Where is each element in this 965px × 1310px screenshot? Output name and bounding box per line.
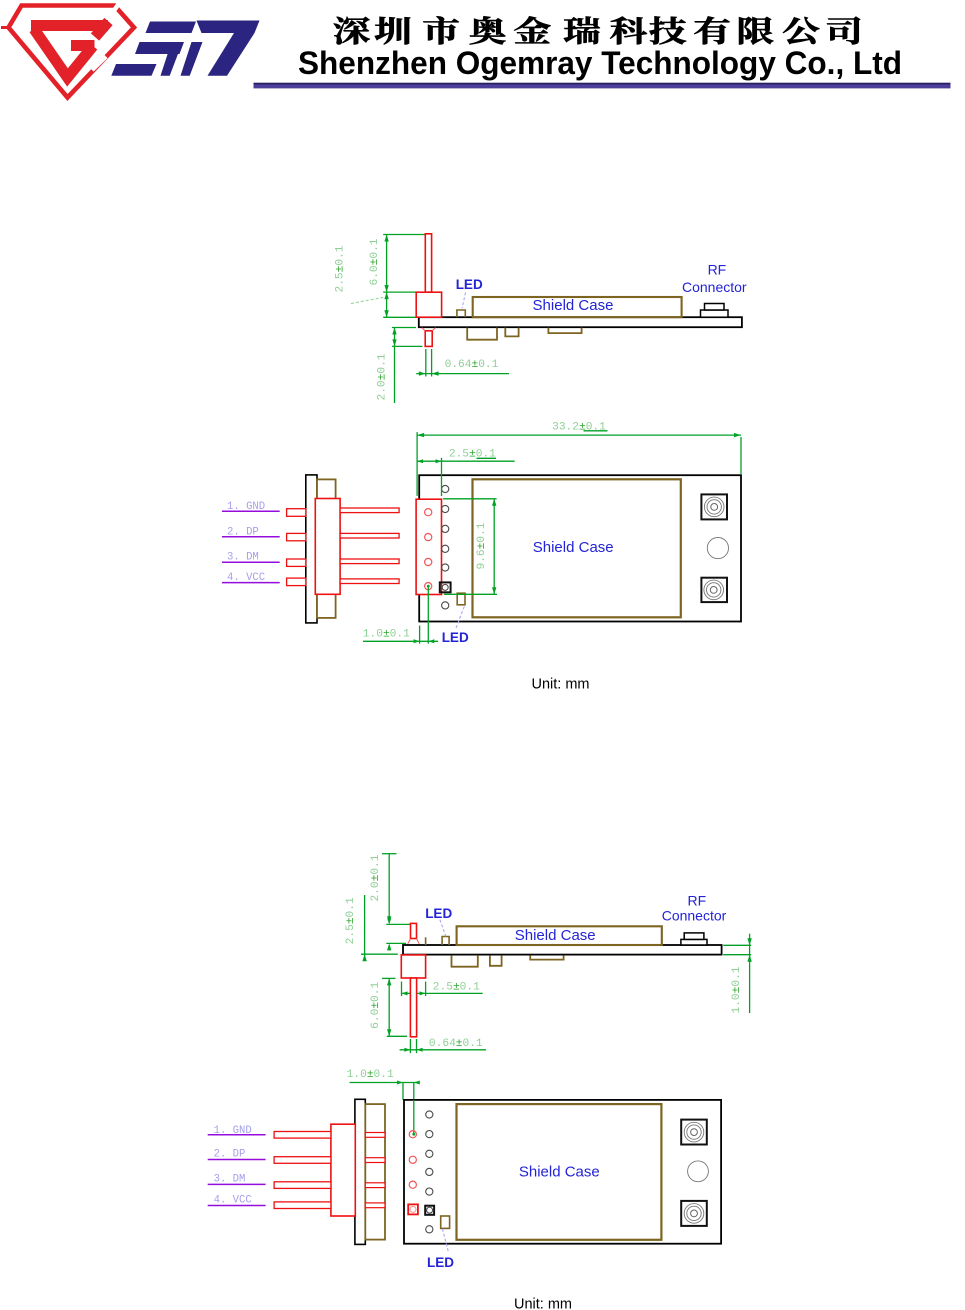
svg-text:Unit: mm: Unit: mm — [514, 1297, 572, 1310]
svg-text:2.0±0.1: 2.0±0.1 — [370, 854, 382, 901]
svg-text:RF: RF — [687, 893, 706, 909]
svg-text:6.0±0.1: 6.0±0.1 — [369, 238, 381, 285]
svg-text:2.5±0.1: 2.5±0.1 — [345, 897, 357, 944]
svg-text:6.0±0.1: 6.0±0.1 — [370, 982, 382, 1029]
svg-text:2.5±0.1: 2.5±0.1 — [433, 982, 480, 994]
svg-text:LED: LED — [425, 906, 452, 921]
svg-text:Shield Case: Shield Case — [533, 297, 614, 314]
svg-text:RF: RF — [708, 262, 727, 278]
svg-text:LED: LED — [427, 1255, 454, 1270]
svg-text:2.5±0.1: 2.5±0.1 — [335, 245, 347, 292]
svg-text:Shield Case: Shield Case — [515, 927, 596, 944]
svg-text:1.0±0.1: 1.0±0.1 — [363, 628, 410, 640]
svg-text:9.6±0.1: 9.6±0.1 — [476, 522, 488, 569]
svg-text:LED: LED — [442, 630, 469, 645]
svg-text:3. DM: 3. DM — [214, 1173, 246, 1185]
svg-text:Shenzhen Ogemray Technology Co: Shenzhen Ogemray Technology Co., Ltd — [298, 45, 902, 81]
svg-text:Connector: Connector — [662, 907, 727, 923]
svg-text:Shield Case: Shield Case — [533, 539, 614, 556]
svg-text:1.0±0.1: 1.0±0.1 — [731, 966, 743, 1013]
svg-text:LED: LED — [456, 277, 483, 292]
svg-text:33.2±0.1: 33.2±0.1 — [552, 421, 606, 433]
svg-text:1.0±0.1: 1.0±0.1 — [347, 1069, 394, 1081]
svg-text:0.64±0.1: 0.64±0.1 — [429, 1038, 483, 1050]
svg-text:Shield Case: Shield Case — [519, 1164, 600, 1181]
svg-text:Unit: mm: Unit: mm — [532, 677, 590, 693]
svg-text:2.0±0.1: 2.0±0.1 — [376, 353, 388, 400]
svg-text:2. DP: 2. DP — [214, 1149, 246, 1161]
svg-text:0.64±0.1: 0.64±0.1 — [445, 359, 499, 371]
svg-text:Connector: Connector — [682, 279, 747, 295]
